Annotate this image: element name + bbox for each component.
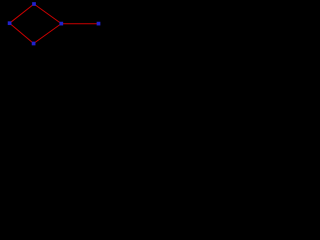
- edge A-D (left node to bottom node): [10, 23, 34, 43]
- edge C-E (right node to far-right node): [61, 23, 98, 25]
- node D (bottom): [32, 42, 36, 46]
- node E (far right): [97, 22, 101, 26]
- node B (top): [32, 2, 36, 6]
- edge A-B (left node to top node): [10, 4, 34, 23]
- edge D-C (bottom node to right node): [34, 24, 62, 44]
- node A (left): [8, 21, 12, 25]
- node C (right of diamond): [59, 22, 63, 26]
- background: [0, 0, 109, 47]
- edge B-C (top node to right node): [34, 4, 61, 24]
